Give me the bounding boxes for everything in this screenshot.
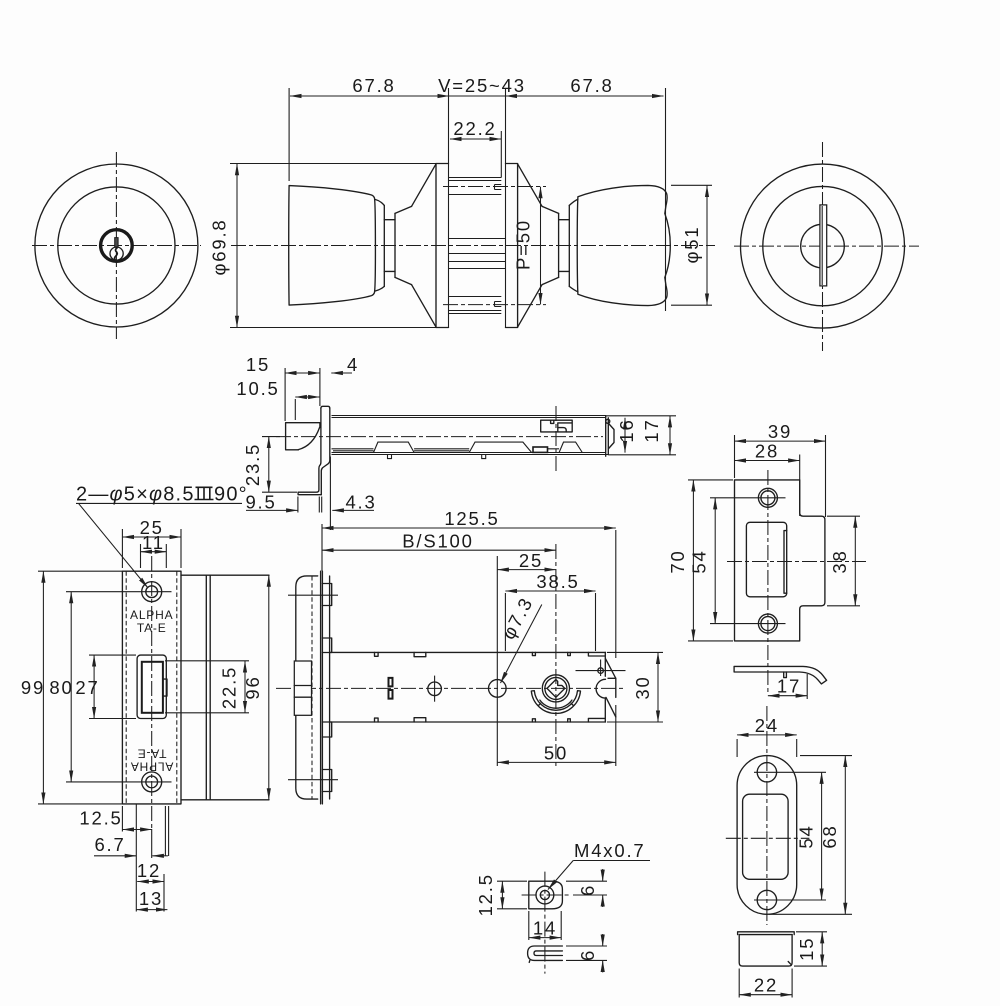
outside knob bell: [289, 186, 376, 306]
svg-text:4.3: 4.3: [345, 492, 376, 513]
top edge notches: [375, 652, 571, 656]
dimension 125.5: [322, 527, 616, 529]
svg-text:80: 80: [49, 677, 73, 698]
svg-text:14: 14: [533, 918, 557, 939]
spindle lines: [449, 239, 506, 269]
hub housing inner detail: [558, 428, 566, 432]
hole centerline horizontal: [522, 894, 571, 896]
keyway slot: [115, 238, 118, 248]
centerline vertical: [544, 872, 546, 974]
svg-text:P=50: P=50: [513, 219, 534, 270]
dust box body: [739, 935, 792, 967]
extension lines bottom dims: [121, 806, 123, 832]
svg-text:54: 54: [796, 824, 817, 848]
extension line left knob face: [288, 88, 290, 181]
key bow circle: [110, 247, 123, 260]
dimension 54: [714, 498, 716, 624]
latch cutout: [743, 794, 789, 879]
dimension 12.5: [122, 829, 151, 831]
dimension 15: [821, 932, 823, 966]
extension lines top dims: [284, 368, 286, 421]
box corner chamfer: [788, 962, 791, 965]
guide hole tick: [434, 676, 436, 702]
latch cutout inner (bolt): [142, 662, 163, 713]
svg-text:B/S100: B/S100: [402, 531, 474, 552]
svg-text:90°: 90°: [214, 484, 248, 506]
extension lines 9.5/4.3: [297, 497, 299, 513]
latch bolt bevel: [298, 427, 319, 449]
dimension 67.8 left: [290, 95, 449, 97]
screw post top clip: [495, 185, 502, 190]
extension lines 68: [800, 755, 852, 757]
extension line 22.2 right: [500, 131, 502, 178]
right neck top and bottom: [559, 220, 570, 272]
hub outer circle: [542, 675, 569, 702]
case bottom edges: [332, 453, 610, 455]
dimension 17: [669, 416, 671, 455]
lip tab: [784, 672, 787, 678]
extension lines 12.5: [497, 880, 527, 882]
dimension 25: [122, 536, 181, 538]
dimension 23.5: [268, 437, 270, 493]
svg-text:φ69.8: φ69.8: [209, 218, 230, 275]
dimension B/S100: [322, 549, 556, 551]
hub inner circle: [545, 677, 567, 699]
plate centerline: [767, 470, 769, 692]
dimension 68: [844, 756, 846, 915]
svg-text:6: 6: [577, 884, 598, 896]
hidden edges: [126, 571, 177, 804]
dimension 12: [137, 881, 164, 883]
top screw hole: [142, 582, 162, 602]
case bottom bump 1: [374, 442, 415, 452]
bottom edge notches: [375, 718, 571, 722]
extension line 17: [806, 674, 808, 699]
case bottom bump 3: [559, 442, 582, 452]
pivot pin: [598, 668, 604, 674]
label underline: [573, 860, 650, 862]
right neck inner ring: [558, 213, 560, 277]
svg-text:12.5: 12.5: [79, 808, 122, 829]
faceplate front face and bottom lip: [298, 408, 321, 495]
top screw hole: [757, 763, 776, 782]
svg-text:9.5: 9.5: [245, 492, 276, 513]
svg-text:22.5: 22.5: [219, 666, 240, 709]
case top edge: [330, 651, 606, 653]
svg-text:38.5: 38.5: [536, 571, 579, 592]
svg-text:TA-E: TA-E: [137, 621, 167, 635]
dimension 27: [93, 655, 95, 718]
dimension 15: [285, 372, 320, 374]
hub centerline: [555, 544, 557, 768]
dia7.3 hole: [489, 680, 507, 698]
neck inner ring: [394, 213, 396, 277]
spring cover segment ticks: [539, 703, 574, 705]
bolt tail upper tab: [606, 659, 616, 679]
faceplate edge pair: [321, 571, 323, 804]
key wards squiggle: [115, 247, 118, 260]
top screw hole: [758, 488, 777, 507]
tapped hole: [536, 886, 554, 904]
latch cutout: [746, 522, 786, 597]
dimension 6 lower: [602, 934, 604, 946]
faceplate back face: [321, 408, 330, 495]
dimension 10.5: [295, 396, 319, 398]
dimension 50: [497, 761, 616, 763]
extension lines top dims: [321, 524, 323, 571]
svg-text:4: 4: [347, 354, 359, 375]
plate centerline: [151, 556, 153, 829]
bottom screw hole: [757, 890, 776, 909]
rear pin: [606, 419, 610, 423]
brand text rotated 180: [130, 747, 173, 774]
dimension 22: [739, 994, 792, 996]
right neck ring: [568, 205, 570, 286]
mounting tabs: [322, 584, 331, 792]
clip side view: [528, 946, 563, 960]
dimension 25: [497, 569, 556, 571]
extension lines dia51: [671, 184, 712, 186]
guide hole: [428, 682, 442, 696]
callout leader arrow: [79, 503, 149, 588]
case feet: [388, 455, 486, 459]
centerline horizontal: [32, 245, 201, 247]
armor plate side: [181, 575, 269, 800]
svg-text:16: 16: [616, 418, 637, 442]
case top edges: [332, 416, 607, 418]
dimension 38: [854, 516, 856, 606]
case bottom edge: [330, 721, 606, 723]
svg-text:28: 28: [755, 441, 779, 462]
svg-text:φ51: φ51: [681, 226, 702, 264]
right rose plate: [506, 164, 518, 328]
top screw tick: [66, 591, 172, 593]
pivot pin ticks: [576, 670, 626, 672]
strike plate outline: [735, 480, 825, 641]
svg-text:38: 38: [829, 549, 850, 573]
extension lines 23.5: [262, 436, 280, 438]
bolt bevel edges: [294, 686, 311, 698]
thumbturn bar: [820, 205, 827, 286]
case rear cap: [606, 416, 609, 456]
retainer plate top view: [529, 881, 563, 909]
knob neck ring: [383, 205, 385, 286]
svg-text:67.8: 67.8: [570, 75, 613, 96]
extension lines 27: [89, 654, 136, 656]
screw post bottom: [449, 297, 502, 314]
dimension dia51: [706, 186, 708, 306]
dimension 96: [268, 575, 270, 800]
key cylinder ring: [101, 230, 133, 262]
rose cone slants: [412, 164, 437, 327]
plate centerline vertical: [766, 706, 768, 925]
svg-text:6.7: 6.7: [94, 834, 125, 855]
extension lines 24: [736, 739, 738, 757]
extension lines dia69.8: [230, 163, 436, 165]
svg-text:96: 96: [242, 675, 263, 699]
svg-text:ALPHA: ALPHA: [130, 608, 173, 622]
svg-text:125.5: 125.5: [444, 508, 499, 529]
svg-text:10.5: 10.5: [236, 378, 279, 399]
rounded front plate: [296, 576, 318, 799]
dimension 54: [821, 772, 823, 900]
svg-text:50: 50: [544, 743, 568, 764]
bottom screw hole: [758, 614, 777, 633]
hub spring cover arc: [531, 691, 580, 714]
callout underline: [76, 502, 242, 504]
clip foot: [528, 960, 531, 962]
plate screw ticks: [288, 594, 338, 596]
slide plate strips: [332, 449, 560, 451]
bolt front view: [294, 661, 311, 715]
dimension P=50: [540, 187, 542, 305]
door face right: [505, 88, 507, 328]
extension line 50 right: [615, 705, 617, 766]
case right end top: [588, 652, 605, 676]
adjuster slots: [389, 678, 393, 699]
door face left: [448, 88, 450, 328]
latch bolt: [286, 423, 320, 450]
oval strike outline: [737, 756, 797, 915]
extension lines 38: [827, 515, 860, 517]
dimension 38.5: [505, 590, 595, 592]
neck top and bottom: [384, 220, 395, 272]
right rose chamfer: [542, 206, 559, 284]
dimension 17: [768, 695, 807, 697]
svg-text:67.8: 67.8: [352, 75, 395, 96]
right knob shoulder arcs: [569, 199, 578, 292]
extension lines 39/28: [734, 435, 736, 478]
bolt tail lower tab: [606, 678, 616, 717]
leader dia7.3: [501, 605, 542, 684]
knob outer circle: [741, 164, 905, 328]
dimension 6 upper: [602, 869, 604, 881]
dimension dia69.8: [236, 164, 238, 328]
hub housing box: [541, 420, 573, 432]
knob shoulder arcs: [375, 200, 384, 292]
screw post bottom clip: [495, 302, 502, 307]
svg-text:12: 12: [137, 860, 161, 881]
plate horizontal centerline: [727, 561, 866, 563]
counterbore symbol: [195, 487, 214, 499]
svg-text:V=25~43: V=25~43: [438, 75, 526, 96]
svg-text:17: 17: [641, 418, 662, 442]
svg-text:13: 13: [139, 888, 163, 909]
extension lines 22.5: [165, 660, 249, 662]
leader arrow: [548, 861, 573, 890]
extension ticks 54: [754, 771, 826, 773]
extension lines 70: [688, 479, 733, 481]
rose cone chamfer: [395, 206, 412, 284]
bottom screw tick: [710, 623, 786, 625]
dimension 99: [42, 571, 44, 804]
svg-text:17: 17: [777, 676, 801, 697]
cutout fold line: [784, 531, 787, 594]
rose inner circle: [763, 186, 882, 305]
svg-text:99: 99: [21, 677, 45, 698]
rear bent tab: [609, 424, 614, 449]
extension lines 6 lower: [566, 945, 607, 947]
svg-text:54: 54: [689, 549, 710, 573]
centerline vertical: [115, 152, 117, 339]
right rose cone slants: [518, 164, 543, 327]
knob outer circle: [35, 164, 198, 327]
left rose plate: [436, 164, 449, 328]
extension lines 14: [528, 911, 530, 940]
extension lines 15: [796, 931, 827, 933]
dimension 28: [735, 460, 800, 462]
screw post bottom centerline: [443, 304, 546, 306]
dimension 70: [692, 480, 694, 641]
dust box flange: [738, 932, 795, 935]
hidden plate edge: [311, 576, 313, 799]
hub square hole: [547, 680, 565, 698]
centerline vertical: [822, 142, 824, 351]
svg-text:22.2: 22.2: [453, 118, 496, 139]
extension lines 25/11: [121, 529, 123, 568]
dimension 80: [70, 592, 72, 782]
dimension 16: [624, 418, 626, 453]
extension line right knob end: [665, 88, 667, 311]
svg-text:25: 25: [519, 550, 543, 571]
main axis centerline: [276, 687, 625, 689]
svg-text:11: 11: [142, 532, 165, 553]
faceplate outline: [122, 571, 181, 804]
dimension 6.7: [94, 855, 136, 857]
dimension 11: [141, 551, 167, 553]
bolt tail cam notch: [596, 679, 605, 698]
bottom screw hole: [142, 772, 162, 792]
svg-text:15: 15: [246, 354, 270, 375]
svg-text:12.5: 12.5: [475, 873, 496, 916]
dimension 9.5: [246, 509, 298, 511]
svg-text:30: 30: [632, 675, 653, 699]
svg-text:27: 27: [75, 677, 99, 698]
mounting plate edge: [329, 576, 331, 799]
svg-text:22: 22: [754, 975, 778, 996]
extension lines 30: [607, 651, 663, 653]
svg-text:68: 68: [819, 824, 840, 848]
svg-text:M4x0.7: M4x0.7: [574, 840, 645, 861]
dimension 4.3: [332, 509, 374, 511]
inside knob bell: [577, 185, 670, 305]
svg-text:39: 39: [768, 421, 792, 442]
dimension 30: [657, 652, 659, 722]
spring coil arc: [540, 700, 572, 708]
rose inner circle: [58, 187, 175, 304]
centerline horizontal: [734, 245, 919, 247]
faceplate cap: [321, 406, 330, 408]
strike lip bar: [734, 666, 827, 684]
spindle boss circle: [801, 224, 845, 268]
spindle axis centerline: [555, 406, 557, 474]
main axis centerline: [231, 245, 715, 247]
svg-text:23.5: 23.5: [242, 443, 263, 486]
dimension 4: [331, 372, 352, 374]
bottom screw tick: [66, 781, 172, 783]
dimension 24: [737, 734, 797, 736]
latch axis centerline: [276, 436, 603, 438]
screw post top centerline: [443, 186, 546, 188]
cutout notch: [163, 679, 167, 696]
dimension 39: [735, 440, 826, 442]
extension lines 6 upper: [566, 880, 607, 882]
dimension 22.5: [244, 661, 246, 713]
svg-text:70: 70: [667, 549, 688, 573]
dimension 14: [529, 937, 561, 939]
extension lines 16/17: [606, 415, 676, 417]
dimension 13: [136, 909, 167, 911]
case right end bottom: [588, 699, 605, 723]
svg-text:15: 15: [796, 937, 817, 961]
screw post top: [449, 178, 502, 195]
svg-text:TA-E: TA-E: [137, 747, 167, 761]
dimension 67.8 right: [506, 95, 664, 97]
extension lines 22: [738, 969, 740, 998]
extension lines 99: [38, 570, 122, 572]
latch cutout outer: [137, 655, 166, 718]
case bottom bump 2: [469, 442, 531, 452]
dimension 12.5: [501, 881, 503, 909]
dimension V=25~43: [449, 95, 506, 97]
svg-text:6: 6: [577, 949, 598, 961]
slide stop box: [533, 447, 548, 452]
top screw tick: [710, 497, 786, 499]
svg-text:2—φ5×φ8.5: 2—φ5×φ8.5: [76, 484, 195, 506]
plate centerline horizontal: [726, 837, 810, 839]
dimension 22.2: [450, 138, 501, 140]
